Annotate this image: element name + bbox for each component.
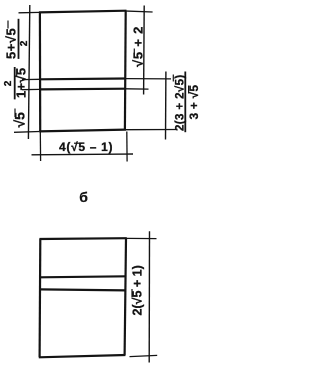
vinculum over 5 in denominator 3+sqrt5	[188, 86, 190, 94]
vinculum over 5 in numerator sqrt5	[7, 21, 9, 29]
top rectangle top edge	[39, 11, 127, 13]
bottom rectangle right edge	[125, 238, 126, 355]
extensions: top edge left	[19, 11, 40, 13]
svg-text:2(3 + 2√5): 2(3 + 2√5)	[174, 74, 187, 131]
internal line 2 main	[40, 88, 126, 91]
bottom internal line 2	[40, 289, 126, 290]
vinculum over 5 in sqrt5+2 label	[133, 49, 135, 58]
internal line2 left extension	[22, 88, 40, 90]
internal line2 right extension	[126, 88, 149, 90]
vinculum over 5 in sqrt5 label	[14, 109, 16, 118]
internal line 1 main	[40, 77, 126, 80]
svg-text:√5: √5	[12, 112, 28, 128]
bottom edge right extension	[130, 355, 158, 356]
bottom edge left extension	[14, 131, 39, 134]
svg-text:2: 2	[19, 40, 30, 46]
vinculum over 5 in numerator 2sqrt5	[172, 75, 174, 82]
bottom internal line 1	[40, 276, 126, 277]
top rectangle left edge	[39, 12, 41, 132]
svg-text:3 + √5: 3 + √5	[187, 85, 199, 120]
top edge right extension	[126, 237, 157, 239]
top rectangle bottom edge	[39, 130, 126, 132]
fraction bar (5+sqrt5)/2	[18, 19, 20, 59]
right dimension line 1 (sqrt5+2)	[143, 6, 146, 95]
fraction bar 2/(1+sqrt5)	[14, 67, 16, 99]
left corner drop extension (to bottom dim)	[39, 131, 41, 161]
internal line1 left extension	[22, 78, 40, 80]
bottom rectangle left edge	[38, 239, 41, 358]
svg-text:5+√5: 5+√5	[4, 28, 19, 59]
svg-text:2(√5 + 1): 2(√5 + 1)	[131, 265, 145, 315]
svg-text:2: 2	[3, 80, 14, 86]
right dimension line 2	[165, 72, 167, 140]
vinculum over 5 in 4(sqrt5-1)	[74, 142, 82, 144]
svg-text:4(√5 – 1): 4(√5 – 1)	[59, 140, 113, 154]
svg-text:√5 + 2: √5 + 2	[131, 26, 146, 67]
svg-text:б: б	[79, 189, 88, 205]
top rectangle right edge	[124, 11, 127, 131]
bottom rectangle top edge	[40, 237, 127, 240]
right dimension line 2(sqrt5+1)	[148, 231, 150, 362]
bottom rectangle bottom edge	[39, 355, 126, 357]
right corner drop extension (to bottom dim)	[126, 132, 128, 162]
svg-text:1+√5: 1+√5	[14, 68, 29, 98]
bottom edge right extension	[126, 129, 177, 131]
vinculum over 5 in denominator 1+sqrt5	[16, 69, 18, 77]
internal line1 right extension	[126, 78, 171, 80]
left dimension line	[28, 5, 29, 139]
fraction bar 2(3+2sqrt5)/(3+sqrt5)	[184, 72, 186, 133]
top edge right extension	[126, 11, 153, 12]
bottom dimension line	[32, 153, 134, 156]
vinculum over 5 in 2(sqrt5+1)	[131, 289, 133, 297]
